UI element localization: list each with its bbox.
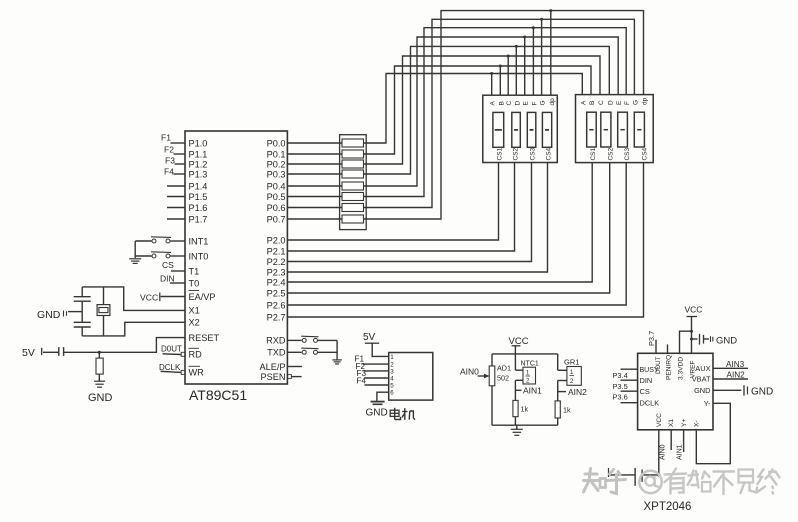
DS1 digit 1 [493,112,504,147]
svg-text:WR: WR [189,368,205,378]
wire GR1 pin2 [558,380,567,382]
svg-text:DOUT: DOUT [655,356,662,374]
svg-text:X-: X- [694,420,701,427]
svg-text:P0.2: P0.2 [267,159,286,169]
svg-text:Y-: Y- [704,399,711,408]
wire F3 to J1 [365,377,389,379]
junction node segment D at DS1 [515,45,518,48]
wire segment B drop to DS1 [499,66,501,95]
wire 5V to capacitor [43,351,59,353]
svg-text:P2.1: P2.1 [267,246,286,256]
svg-text:PENIRQ: PENIRQ [665,355,672,380]
wire ALE stub [287,366,302,368]
DS2 digit 3 [618,112,628,147]
ground sensors [516,425,518,429]
svg-text:F4: F4 [357,376,367,385]
wire P0.6 to segment G bus [364,19,635,207]
wire P1 stub [167,207,185,209]
DS1 digit 2 [512,112,521,147]
crystal Y1 [103,287,105,305]
svg-text:RESET: RESET [189,333,220,343]
wire DCLK to WR [161,371,182,372]
svg-text:GND: GND [716,336,737,347]
wire left branch top [491,354,493,366]
junction node segment E at DS1 [523,36,526,39]
wire DS2 CS3 to P2.6 [287,163,626,305]
svg-text:DIN: DIN [640,376,653,385]
svg-text:F1: F1 [161,133,171,143]
svg-text:G: G [632,100,639,105]
svg-text:TXD: TXD [267,348,286,358]
resistor RP1-6 [342,193,364,201]
svg-text:RXD: RXD [266,336,286,346]
wire between capacitors [81,301,83,322]
svg-text:P0.7: P0.7 [267,214,286,224]
wire GND tap [68,311,82,313]
resistor RP1-4 [342,170,364,178]
wire F2 to U1 [174,153,186,155]
DS1 digit 3 [527,112,536,147]
wire X1 to crystal loop [82,287,185,311]
wire P0.7 to resistor [287,218,342,220]
wire X2 to crystal loop [82,322,185,336]
wire T0 stub [170,282,185,284]
svg-text:VCC: VCC [140,293,158,303]
svg-text:AIN2: AIN2 [727,371,746,380]
wire DS1 CS4 to P2.3 [287,163,547,273]
svg-text:AT89C51: AT89C51 [189,387,247,403]
svg-text:CS2: CS2 [513,147,520,160]
wire PSEN stub [291,376,301,378]
wire DIN stub [621,379,638,381]
svg-text:P0.4: P0.4 [267,181,286,191]
svg-text:NTC1: NTC1 [521,361,539,368]
svg-text:P0.6: P0.6 [267,203,286,213]
wire 5V to J1 pin1 [372,343,389,356]
svg-text:CS2: CS2 [608,147,615,160]
svg-text:3: 3 [390,368,394,375]
svg-text:AIN1: AIN1 [677,444,684,460]
svg-text:CS1: CS1 [497,147,504,160]
wire GR branch top [557,354,559,370]
wire segment F drop to DS1 [532,28,534,96]
svg-text:D0UT: D0UT [161,345,182,354]
wire PENIRQ stub [667,344,669,353]
wire S2 to ground rail [135,255,152,257]
svg-text:A: A [490,101,497,106]
display DS2 body [576,95,654,163]
svg-text:X2: X2 [189,318,200,328]
svg-text:C: C [506,101,513,106]
resistor RP1-8 [342,215,364,223]
svg-text:P3.4: P3.4 [613,371,628,380]
svg-text:dp: dp [642,97,649,105]
wire crystal left branch [81,287,83,297]
svg-text:F4: F4 [164,167,174,177]
junction node segment B at DS1 [499,65,502,68]
junction VCC bottom cap [657,473,660,476]
svg-text:AD1: AD1 [497,364,511,373]
wire P1 stub [167,185,185,187]
wire Y+ stub [683,430,685,452]
capacitor C5 on GND pin [743,385,745,395]
wire S2 to INT0 [170,255,185,257]
wire GR1 pin1 [558,369,567,371]
wire R3 to bottom rail [557,418,559,425]
svg-text:F3: F3 [165,156,175,166]
svg-text:P0.3: P0.3 [267,169,286,179]
svg-text:5V: 5V [363,332,376,343]
svg-text:P1.7: P1.7 [189,214,208,224]
svg-text:P1.1: P1.1 [189,149,208,159]
node AIN2 [558,391,566,393]
junction node segment G at DS1 [540,18,543,21]
pin square WR [181,370,185,374]
svg-text:XPT2046: XPT2046 [644,501,692,513]
wire segment E drop to DS1 [524,37,526,95]
ground [332,359,342,361]
svg-text:P2.6: P2.6 [267,300,286,310]
resistor R2 1k [513,400,518,416]
svg-text:P2.4: P2.4 [267,277,286,287]
wire DS1 CS2 to P2.1 [287,163,514,252]
wire P0.1 to segment B bus [364,66,592,154]
svg-text:4: 4 [390,375,394,382]
wire Y- loop [696,403,730,463]
svg-text:A: A [580,100,587,105]
capacitor C4 on VCC [692,338,698,340]
wire AUX to AIN3 [713,367,748,369]
wire P0.5 to resistor [287,196,342,198]
svg-text:DCLK: DCLK [640,399,660,408]
wire F1 to U1 [171,142,186,144]
svg-text:P1.4: P1.4 [189,181,208,191]
wire P1 stub [167,218,185,220]
wire DOUT stub [655,340,657,354]
resistor R3 1k [555,401,560,418]
svg-text:AIN2: AIN2 [568,387,587,397]
pin square PSEN [288,375,292,379]
wire P0.3 to resistor [287,173,342,175]
junction VCC/3.3VDD [690,330,693,333]
svg-text:P2.7: P2.7 [267,312,286,322]
svg-text:X1: X1 [668,419,675,427]
svg-text:INT1: INT1 [189,236,209,246]
wire VCC to VREF [691,317,693,354]
wire F4 to J1 [365,384,389,386]
wire P0.2 to segment C bus [364,56,601,164]
svg-text:CS1: CS1 [590,147,597,160]
wire AIN0 arrow [478,375,488,377]
resistor R1 [96,358,103,374]
svg-text:EA/VP: EA/VP [189,292,216,302]
wire P0.0 to resistor [287,142,342,144]
svg-text:P3.6: P3.6 [613,393,628,402]
pin square RD [181,352,185,356]
svg-text:DIN: DIN [160,274,175,284]
svg-text:502: 502 [497,374,509,383]
pushbutton S4 on TXD [287,351,301,353]
wire P0.2 to resistor [287,163,342,165]
svg-text:G: G [540,100,547,105]
wire segment dp drop to DS1 [550,11,552,96]
wire P0.5 to segment F bus [364,28,627,197]
capacitor C3 [58,347,60,356]
pushbutton S1 on INT1 [152,239,156,243]
pushbutton S3 on RXD [287,339,301,341]
DS2 digit 1 [587,112,597,147]
wire buttons to ground [336,340,338,359]
capacitor C2 [74,321,91,323]
svg-text:P2.2: P2.2 [267,257,286,267]
wire ground rail [134,241,136,258]
svg-text:5V: 5V [22,347,35,359]
overline EA [189,290,200,292]
svg-text:1: 1 [390,354,394,361]
wire NTC1 pin2 [515,379,523,381]
svg-text:P1.0: P1.0 [189,138,208,148]
svg-text:T0: T0 [189,278,200,288]
wire DOUT to RD [163,353,182,356]
svg-text:B: B [589,101,596,105]
wire VBAT to AIN2 [713,378,748,380]
svg-text:GND: GND [694,386,710,395]
wire F2 to J1 [364,370,389,372]
microcontroller U1 AT89C51 body [185,131,287,384]
svg-text:VREF: VREF [689,360,696,378]
svg-text:P1.5: P1.5 [189,192,208,202]
svg-text:P2.3: P2.3 [267,267,286,277]
wire X+ stub [670,430,672,450]
wire C2 to bottom rail [81,327,83,336]
wire DS2 CS1 to P2.4 [287,163,592,282]
svg-text:P3.7: P3.7 [647,331,656,346]
ground [371,401,385,403]
svg-text:D: D [607,100,614,105]
resistor RP1-5 [342,182,364,190]
svg-text:P1.6: P1.6 [189,203,208,213]
svg-text:F: F [624,101,631,105]
DS1 digit 4 [542,112,551,147]
ground [94,380,105,382]
wire C3 to RESET [64,338,185,353]
wire DS2 CS2 to P2.5 [287,163,609,293]
wire sensor bottom rail [492,424,558,426]
svg-text:AIN1: AIN1 [523,386,542,396]
overline RD [189,347,200,349]
wire P0.4 to resistor [287,185,342,187]
wire P0.3 to segment D bus [364,46,610,174]
svg-text:5: 5 [390,382,394,389]
wire F3 to U1 [175,163,186,165]
wire CS stub [621,390,638,392]
svg-text:AIN0: AIN0 [660,444,667,460]
wire sensor top rail [492,353,558,355]
svg-text:CS3: CS3 [530,147,537,160]
svg-text:CS4: CS4 [546,147,553,160]
wire segment A drop to DS1 [491,74,493,96]
wire DS2 CS4 to P2.7 [287,163,643,317]
svg-text:D: D [514,101,521,106]
wire junction to resistor R1 [98,352,100,358]
svg-text:INT0: INT0 [189,251,209,261]
wire P0.1 to resistor [287,153,342,155]
svg-text:GND: GND [37,309,61,321]
wire S1 to ground rail [135,240,152,242]
svg-text:1k: 1k [563,406,571,415]
overline WR [189,365,201,367]
wire P1 stub [167,196,185,198]
wire GR to AIN2 node [557,381,559,401]
pushbutton S2 on INT0 [152,254,156,258]
wire F1 to J1 [363,363,389,365]
capacitor C1 [74,296,91,298]
wire P0.0 to segment A bus [364,74,583,144]
touch controller U2 XPT2046 body [638,353,713,430]
potentiometer AD1 [489,366,495,386]
wire S1 to INT1 [170,240,185,242]
svg-text:P3.5: P3.5 [613,382,628,391]
ground [129,258,141,260]
svg-text:GND: GND [366,408,388,419]
wire VCC bottom [658,430,660,475]
svg-text:CS: CS [162,260,174,270]
wire segment D drop to DS1 [515,46,517,95]
resistor RP1-7 [342,204,364,212]
svg-text:GR1: GR1 [564,358,579,367]
junction node segment F at DS1 [532,26,535,29]
svg-text:RD: RD [189,350,203,360]
wire segment C drop to DS1 [507,56,509,95]
resistor RP1-3 [342,160,364,168]
junction VCC/C4 [690,338,693,341]
svg-text:X1: X1 [189,306,200,316]
svg-text:CS4: CS4 [642,147,649,160]
wire BUSY stub [621,368,638,370]
svg-text:P0.1: P0.1 [267,149,286,159]
svg-text:AUX: AUX [695,364,710,373]
svg-text:P0.5: P0.5 [267,192,286,202]
wire NTC1 pin1 [515,369,523,371]
wire F4 to U1 [174,173,186,175]
svg-text:3.3VDD: 3.3VDD [677,357,684,380]
wire R2 to bottom rail [514,417,516,426]
svg-text:P1.3: P1.3 [189,169,208,179]
svg-text:VCC: VCC [656,413,663,427]
wire GND pin [713,389,741,391]
svg-text:F: F [531,102,538,106]
wire 3.3VDD to VCC [680,331,692,353]
svg-text:dp: dp [549,98,556,106]
svg-text:P1.2: P1.2 [189,159,208,169]
node AIN1 [515,389,521,391]
wire P0.4 to segment E bus [364,37,619,186]
wire NTC branch top [514,354,516,370]
svg-text:ALE/P: ALE/P [259,362,285,372]
label dianji (motor) glyphs [390,408,415,420]
watermark zhihu [584,469,780,495]
svg-text:AIN0: AIN0 [460,367,479,377]
svg-text:F2: F2 [164,145,174,155]
svg-text:GND: GND [88,392,113,404]
junction node segment dp at DS1 [549,9,552,12]
DS2 digit 2 [601,112,611,147]
svg-text:E: E [523,101,530,106]
svg-text:B: B [498,101,505,105]
wire DS1 CS3 to P2.2 [287,163,531,262]
wire NTC to AIN1 node [514,380,516,400]
connector J1 motor body [389,353,433,401]
wire R1 to ground [98,374,100,381]
svg-text:C: C [598,100,605,105]
svg-text:P2.5: P2.5 [267,288,286,298]
display DS1 body [483,95,558,162]
svg-text:E: E [616,100,623,105]
svg-text:CS3: CS3 [624,147,631,160]
thermistor NTC1 body [523,367,536,384]
photoresistor GR1 body [567,367,581,386]
svg-text:CS: CS [640,387,650,396]
svg-text:Y+: Y+ [681,419,688,427]
svg-text:P2.0: P2.0 [267,235,286,245]
resistor pack RP1 outline [340,135,367,230]
junction node segment C at DS1 [507,55,510,58]
svg-text:VCC: VCC [685,305,703,315]
svg-text:6: 6 [390,390,394,397]
capacitor C6 bottom [642,474,659,476]
svg-text:DCLK: DCLK [159,363,181,372]
svg-text:P0.0: P0.0 [267,138,286,148]
wire left branch bottom [491,386,493,425]
wire J1 pin6 to ground [377,392,389,401]
wire DCLK stub [621,402,638,404]
wire P0.7 to segment dp bus [364,11,644,219]
wire DS1 CS1 to P2.0 [287,163,498,241]
resistor RP1-1 [342,139,364,147]
resistor RP1-2 [342,150,364,158]
svg-text:T1: T1 [189,266,200,276]
junction node segment A at DS1 [490,72,493,75]
junction node RESET divider [98,351,101,354]
svg-text:1k: 1k [521,405,529,414]
svg-text:AIN3: AIN3 [726,360,745,369]
wire segment G drop to DS1 [541,19,543,95]
svg-text:GND: GND [751,387,773,398]
svg-text:PSEN: PSEN [260,372,285,382]
DS2 digit 4 [634,112,644,147]
wire P0.6 to resistor [287,207,342,209]
wire T1 stub [171,270,185,272]
